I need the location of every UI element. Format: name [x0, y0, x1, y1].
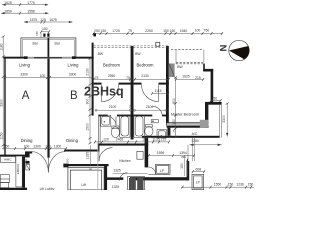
svg-text:Dining: Dining: [21, 138, 34, 143]
svg-text:1180: 1180: [0, 43, 4, 50]
svg-text:Bal: Bal: [55, 42, 60, 46]
svg-text:100: 100: [40, 74, 46, 78]
svg-text:WMC: WMC: [4, 158, 11, 162]
svg-text:LP: LP: [160, 169, 165, 173]
svg-text:3300: 3300: [69, 73, 77, 77]
svg-text:150: 150: [228, 183, 234, 187]
svg-text:Dining: Dining: [66, 138, 79, 143]
svg-text:1596: 1596: [157, 151, 165, 155]
svg-text:Living: Living: [68, 63, 80, 68]
svg-text:1775: 1775: [27, 1, 35, 5]
svg-text:120: 120: [40, 18, 46, 22]
svg-text:Bedroom: Bedroom: [103, 63, 121, 68]
svg-text:Kitchen: Kitchen: [119, 159, 130, 163]
svg-text:75: 75: [95, 76, 99, 80]
svg-text:BW: BW: [177, 65, 183, 69]
svg-text:100: 100: [24, 144, 30, 148]
svg-text:1625: 1625: [182, 75, 190, 79]
svg-text:2100: 2100: [109, 105, 117, 109]
svg-text:250: 250: [94, 29, 100, 33]
svg-text:2130: 2130: [85, 68, 89, 76]
svg-text:294: 294: [181, 155, 186, 159]
svg-text:3300: 3300: [222, 115, 226, 123]
svg-text:2465: 2465: [116, 138, 124, 142]
svg-text:2130: 2130: [141, 74, 149, 78]
svg-text:75: 75: [129, 105, 133, 109]
svg-text:215: 215: [161, 138, 167, 142]
svg-text:100: 100: [24, 158, 28, 163]
svg-text:1850: 1850: [4, 9, 12, 13]
svg-text:Living: Living: [19, 63, 31, 68]
svg-text:1625: 1625: [4, 1, 12, 5]
svg-text:1675: 1675: [49, 18, 57, 22]
svg-text:1300: 1300: [33, 144, 41, 148]
svg-text:150: 150: [163, 29, 169, 33]
svg-text:1558: 1558: [27, 9, 35, 13]
svg-text:1236: 1236: [236, 183, 244, 187]
svg-text:75: 75: [128, 29, 132, 33]
svg-text:120: 120: [103, 138, 109, 142]
svg-text:EMD/LV: EMD/LV: [16, 164, 20, 174]
svg-text:Lift Lobby: Lift Lobby: [40, 187, 55, 190]
svg-text:150: 150: [101, 29, 107, 33]
svg-text:2BHsq: 2BHsq: [84, 85, 124, 99]
svg-text:150: 150: [35, 31, 39, 36]
svg-text:1150: 1150: [0, 132, 4, 139]
svg-text:1675: 1675: [30, 18, 38, 22]
svg-text:2100: 2100: [146, 105, 154, 109]
svg-text:1500: 1500: [85, 123, 89, 131]
svg-text:75: 75: [126, 76, 130, 80]
svg-text:BW: BW: [98, 52, 104, 56]
svg-text:100: 100: [195, 28, 201, 32]
svg-text:1325: 1325: [113, 169, 121, 173]
svg-text:150: 150: [4, 144, 10, 148]
svg-text:1540: 1540: [180, 29, 188, 33]
svg-text:1115: 1115: [154, 89, 161, 93]
svg-text:608: 608: [195, 167, 201, 171]
svg-text:A: A: [22, 90, 30, 102]
svg-text:150: 150: [180, 163, 184, 169]
svg-text:150: 150: [170, 29, 176, 33]
svg-text:760: 760: [204, 28, 210, 32]
svg-text:1325: 1325: [86, 152, 90, 160]
svg-text:150: 150: [248, 183, 254, 187]
svg-text:B: B: [70, 90, 78, 102]
svg-text:Lift: Lift: [81, 183, 86, 187]
svg-text:150: 150: [42, 27, 48, 31]
svg-text:BW: BW: [135, 52, 141, 56]
svg-text:75: 75: [172, 129, 176, 133]
svg-text:150: 150: [172, 119, 176, 125]
svg-text:Bal: Bal: [33, 42, 38, 46]
svg-text:900: 900: [172, 98, 176, 104]
svg-text:100: 100: [45, 144, 51, 148]
svg-text:Master Bedroom: Master Bedroom: [171, 112, 199, 116]
svg-text:1135: 1135: [152, 138, 159, 142]
svg-text:LP: LP: [196, 181, 201, 185]
svg-text:A/C: A/C: [192, 132, 198, 136]
svg-text:1325: 1325: [112, 185, 120, 189]
svg-text:2250: 2250: [145, 29, 153, 33]
svg-text:2950: 2950: [108, 74, 116, 78]
svg-text:1725: 1725: [112, 29, 120, 33]
svg-text:150: 150: [142, 138, 148, 142]
svg-text:100: 100: [65, 158, 69, 163]
svg-text:215: 215: [195, 76, 201, 80]
svg-text:3300: 3300: [20, 73, 28, 77]
svg-text:750: 750: [211, 97, 217, 101]
svg-text:Bedroom: Bedroom: [137, 63, 155, 68]
svg-text:900: 900: [85, 99, 89, 105]
svg-text:3300: 3300: [0, 99, 4, 107]
svg-text:N: N: [219, 44, 230, 51]
svg-text:1550: 1550: [214, 183, 222, 187]
svg-text:1300: 1300: [54, 144, 62, 148]
